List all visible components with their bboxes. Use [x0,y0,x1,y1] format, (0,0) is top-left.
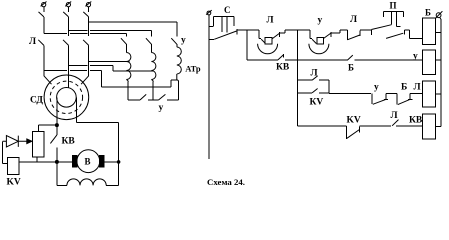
svg-text:АТр: АТр [185,64,201,74]
svg-text:КВ: КВ [409,116,423,126]
svg-text:В: В [85,157,91,167]
svg-text:у: у [374,83,379,93]
svg-text:KV: KV [7,178,21,188]
svg-text:у: у [181,36,186,46]
svg-text:у: у [413,52,418,62]
svg-text:СД: СД [30,96,43,106]
svg-text:Л: Л [311,69,318,79]
svg-text:КV: КV [310,98,324,108]
svg-text:Л: Л [267,16,274,26]
svg-text:Л: Л [414,83,421,93]
svg-text:КВ: КВ [276,62,290,72]
svg-text:Л: Л [350,15,357,25]
svg-text:KV: KV [347,116,361,126]
svg-text:Л: Л [29,37,36,47]
svg-text:Б: Б [425,8,431,18]
svg-text:Схема 24.: Схема 24. [207,178,245,187]
svg-text:КВ: КВ [62,137,76,147]
svg-text:Б: Б [401,83,407,93]
svg-text:Л: Л [391,111,398,121]
svg-text:С: С [224,5,231,15]
svg-text:Б: Б [348,63,354,73]
svg-text:у: у [159,103,164,113]
svg-text:у: у [318,16,323,26]
svg-text:П: П [390,1,397,11]
